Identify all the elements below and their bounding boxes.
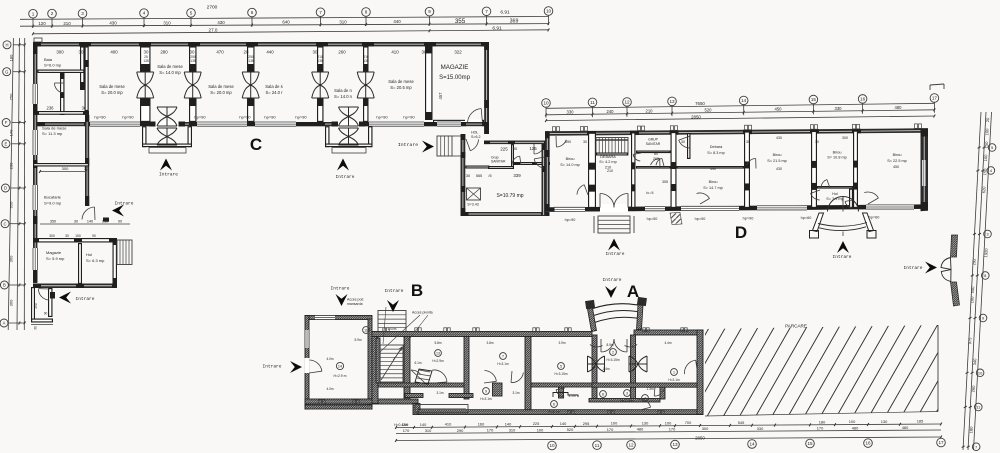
svg-text:Birou: Birou [566, 157, 575, 161]
connector door arc [470, 139, 478, 150]
svg-text:120: 120 [38, 21, 46, 26]
A interior wall 7 [631, 335, 636, 400]
A interior wall 6 [592, 335, 597, 400]
svg-text:15: 15 [811, 97, 817, 102]
connector south wall [461, 212, 550, 216]
left wing west wall [33, 46, 37, 283]
A door vestibule right [625, 344, 638, 347]
svg-text:140: 140 [560, 421, 567, 426]
svg-text:H=3.1m: H=3.1m [497, 362, 509, 366]
svg-text:27.0: 27.0 [209, 28, 218, 33]
svg-text:160: 160 [478, 421, 485, 426]
svg-text:10: 10 [546, 9, 552, 14]
svg-text:100: 100 [611, 421, 618, 426]
hp labels building D [565, 215, 880, 221]
svg-text:620: 620 [981, 186, 987, 194]
connector east wall [542, 144, 546, 216]
svg-text:S= 20.5 mp: S= 20.5 mp [390, 85, 412, 90]
svg-text:hp=90: hp=90 [695, 217, 706, 221]
D door small arcs [633, 154, 640, 161]
D dimension chain [545, 101, 935, 116]
building C top wall junction blocks [33, 42, 489, 46]
svg-text:S=9.0 mp: S=9.0 mp [44, 201, 62, 206]
connector door east [534, 159, 544, 168]
svg-text:30: 30 [746, 140, 750, 144]
svg-text:Birou: Birou [893, 153, 902, 157]
A room13 door arc [432, 370, 447, 382]
D door arc 5 [747, 159, 756, 166]
svg-text:5.9m: 5.9m [354, 338, 361, 342]
svg-text:H=3.1m: H=3.1m [548, 410, 560, 414]
entrance arrow D2 [837, 241, 849, 253]
svg-text:30: 30 [34, 326, 38, 330]
window left wing west 2 [33, 130, 37, 155]
svg-text:Acces pod: Acces pod [347, 298, 363, 302]
window room14 west [305, 330, 309, 348]
svg-text:4: 4 [644, 397, 646, 401]
svg-text:5: 5 [190, 10, 193, 15]
entrance arrow B1 [336, 294, 348, 306]
svg-text:100: 100 [537, 427, 544, 432]
svg-text:S= 14.0 mp: S= 14.0 mp [159, 70, 181, 75]
A inner stairs [380, 345, 403, 382]
building D west wall [545, 131, 550, 211]
top dimension chain [20, 5, 549, 28]
svg-text:170: 170 [607, 427, 614, 432]
svg-text:430: 430 [776, 167, 782, 171]
svg-text:140: 140 [505, 421, 512, 426]
svg-text:4.0m: 4.0m [326, 357, 333, 361]
svg-text:2: 2 [51, 11, 54, 16]
A toilet door arcs [484, 371, 496, 382]
svg-text:290: 290 [457, 428, 464, 433]
A stair hatch wall [376, 338, 380, 383]
svg-text:250: 250 [248, 55, 254, 59]
A door room1 [629, 356, 647, 372]
window left wing west 4 [33, 248, 37, 270]
svg-text:8.5m: 8.5m [606, 343, 613, 347]
svg-text:Intrare: Intrare [76, 296, 95, 302]
svg-text:30: 30 [422, 50, 427, 55]
svg-text:130: 130 [881, 419, 888, 424]
svg-text:440: 440 [266, 50, 274, 55]
svg-text:3.9m: 3.9m [558, 341, 565, 345]
room 2 label [610, 349, 617, 356]
building D interior walls [588, 131, 858, 207]
svg-text:5.8m: 5.8m [434, 341, 441, 345]
svg-text:hp=90: hp=90 [264, 115, 276, 120]
svg-text:80: 80 [654, 152, 658, 156]
svg-text:185: 185 [917, 419, 924, 424]
svg-text:310: 310 [425, 428, 432, 433]
svg-text:975: 975 [967, 337, 973, 345]
A door vestibule left [590, 344, 603, 347]
entrance arrow B2 [387, 300, 399, 312]
building C top dim labels [56, 50, 462, 55]
D hol partition [818, 187, 853, 188]
svg-text:Sala de mese: Sala de mese [388, 79, 414, 84]
svg-text:236: 236 [47, 106, 55, 111]
svg-text:S= 6.3 mp: S= 6.3 mp [86, 258, 105, 263]
svg-text:Debara: Debara [710, 145, 723, 149]
svg-text:170: 170 [487, 428, 494, 433]
A cellar ramp [415, 369, 432, 384]
svg-text:hp=90: hp=90 [94, 115, 106, 120]
svg-text:250: 250 [34, 303, 38, 309]
svg-text:360: 360 [9, 255, 14, 262]
svg-text:180: 180 [9, 54, 14, 61]
svg-text:Intrare: Intrare [398, 142, 418, 148]
svg-text:225: 225 [533, 421, 540, 426]
svg-text:135: 135 [190, 59, 196, 63]
svg-text:545: 545 [738, 420, 745, 425]
svg-text:H=0.42m: H=0.42m [394, 423, 408, 427]
right gate doors [941, 258, 951, 282]
svg-text:330: 330 [567, 109, 575, 114]
svg-text:430: 430 [109, 21, 117, 26]
svg-text:240: 240 [607, 109, 615, 114]
building D east wall [921, 128, 929, 211]
svg-text:30: 30 [190, 50, 195, 55]
svg-text:470: 470 [216, 50, 224, 55]
svg-text:S= 14.7 mp: S= 14.7 mp [703, 186, 723, 190]
svg-text:Intrare: Intrare [833, 254, 852, 260]
svg-text:tc /4: tc /4 [646, 191, 653, 195]
svg-text:30: 30 [313, 50, 318, 55]
D entrance opening doors [600, 194, 628, 208]
svg-text:Hol: Hol [832, 192, 838, 196]
svg-text:S=6.2: S=6.2 [471, 135, 481, 139]
svg-text:369: 369 [510, 19, 519, 25]
A toilet partition north [405, 394, 423, 398]
svg-text:135: 135 [363, 59, 369, 63]
svg-text:Birou: Birou [709, 180, 718, 184]
svg-text:11: 11 [590, 100, 595, 105]
svg-text:6: 6 [553, 403, 555, 407]
A doorstep slab [415, 405, 468, 413]
svg-text:4.4m: 4.4m [664, 341, 671, 345]
svg-text:355: 355 [455, 18, 466, 25]
svg-text:hp=90: hp=90 [565, 218, 576, 222]
svg-text:540: 540 [970, 286, 976, 294]
svg-text:450: 450 [775, 107, 783, 112]
svg-text:hp=90: hp=90 [239, 115, 251, 120]
top total dimension line [32, 25, 549, 35]
svg-text:250: 250 [9, 93, 14, 100]
svg-text:13: 13 [669, 99, 675, 104]
svg-text:10: 10 [978, 370, 983, 375]
svg-text:4: 4 [143, 11, 146, 16]
svg-text:135: 135 [317, 59, 323, 63]
room 1 label [671, 369, 678, 376]
svg-text:HOL: HOL [471, 131, 478, 135]
svg-text:7650: 7650 [695, 101, 705, 106]
room 4 label [642, 395, 649, 402]
svg-text:17: 17 [932, 96, 938, 101]
svg-text:Intrare: Intrare [159, 172, 178, 178]
svg-text:D: D [735, 223, 747, 242]
right boundary wall lower [951, 282, 960, 306]
connector west wall [461, 134, 466, 216]
svg-text:30: 30 [84, 166, 89, 171]
svg-text:PARCARE: PARCARE [785, 324, 807, 329]
svg-text:210: 210 [607, 169, 613, 173]
svg-text:hp=90: hp=90 [122, 115, 134, 120]
building C right wall [484, 42, 489, 134]
left wing wall 236 [34, 112, 89, 115]
svg-text:Sala de mese: Sala de mese [157, 64, 183, 69]
building A east wall [697, 330, 703, 414]
left axis line [8, 38, 25, 330]
room 8 label [600, 391, 607, 398]
D stairwell stairs [596, 138, 628, 156]
building D top wall [545, 128, 928, 135]
door width labels building C [143, 55, 369, 63]
D debara partition [597, 153, 628, 155]
building A top wall west [372, 332, 592, 337]
svg-text:20: 20 [244, 50, 249, 55]
svg-text:170: 170 [9, 129, 14, 136]
D axis line [546, 102, 934, 118]
D door arc 2 [651, 159, 660, 166]
svg-text:330: 330 [835, 106, 843, 111]
svg-text:11: 11 [364, 329, 368, 333]
svg-text:280: 280 [160, 50, 168, 55]
building C entrance porch 1 [143, 107, 192, 153]
room 9 label [483, 388, 490, 395]
D axis bubbles 10-17 [542, 94, 939, 108]
svg-text:hp=90: hp=90 [194, 115, 206, 120]
porch1 opening [149, 121, 185, 127]
entrance arrow D1 [608, 239, 620, 251]
svg-text:90: 90 [118, 220, 122, 224]
svg-text:480: 480 [895, 105, 903, 110]
svg-text:125: 125 [529, 146, 537, 151]
D inner dim labels [565, 136, 899, 184]
double door room2-3 [184, 72, 201, 98]
svg-text:7: 7 [319, 10, 322, 15]
D grup sanitar partition [637, 151, 670, 152]
svg-text:100: 100 [984, 128, 990, 136]
vestibule door arcs [512, 156, 520, 165]
svg-text:30: 30 [466, 174, 470, 178]
svg-text:S= 14.0 mp: S= 14.0 mp [560, 163, 580, 167]
svg-text:330: 330 [757, 426, 764, 431]
svg-text:3.1m: 3.1m [568, 394, 575, 398]
svg-text:mansarda: mansarda [347, 302, 363, 306]
svg-text:hp=90: hp=90 [295, 115, 307, 120]
svg-text:480: 480 [637, 427, 644, 432]
svg-text:300: 300 [49, 234, 55, 238]
svg-text:S=6.0 mp: S=6.0 mp [44, 63, 62, 68]
svg-text:S= 22.5 mp: S= 22.5 mp [887, 159, 907, 163]
svg-text:12: 12 [628, 442, 634, 447]
svg-text:15: 15 [807, 441, 813, 446]
A vestibule doors [601, 339, 627, 352]
svg-text:Acces pivnita: Acces pivnita [412, 311, 433, 315]
building C MAGAZIE bottom wall [434, 120, 484, 122]
A corridor door arc [639, 399, 651, 407]
svg-text:322: 322 [454, 50, 462, 55]
svg-text:30: 30 [144, 50, 149, 55]
svg-text:C: C [4, 221, 7, 226]
building A bottom wall [305, 399, 418, 404]
svg-text:hp=90: hp=90 [376, 115, 388, 120]
svg-text:180: 180 [819, 419, 826, 424]
room 6 label [551, 401, 558, 408]
svg-text:210: 210 [63, 21, 71, 26]
svg-text:230: 230 [9, 162, 14, 169]
svg-text:SANITAR: SANITAR [646, 142, 661, 146]
svg-text:2850: 2850 [691, 115, 701, 120]
svg-text:/5: /5 [488, 174, 491, 178]
room 14 label [336, 362, 343, 369]
building D bottom wall with windows [545, 202, 928, 212]
svg-text:90: 90 [92, 234, 96, 238]
svg-text:457: 457 [438, 92, 443, 100]
svg-text:Magazie: Magazie [46, 250, 62, 255]
svg-text:Baia: Baia [44, 57, 53, 62]
entrance arrow west A [290, 361, 302, 373]
double door room3-4 [242, 72, 259, 98]
svg-text:Sala de mese: Sala de mese [42, 126, 67, 131]
svg-text:210: 210 [317, 55, 323, 59]
svg-text:S= 8.3 mp: S= 8.3 mp [707, 151, 724, 155]
svg-text:6: 6 [251, 10, 254, 15]
svg-text:SANITAR: SANITAR [491, 160, 506, 164]
svg-text:S= 11.3 mp: S= 11.3 mp [42, 131, 63, 136]
D door arc 3 [679, 140, 690, 148]
svg-text:210: 210 [646, 108, 654, 113]
svg-text:520: 520 [567, 427, 574, 432]
svg-text:hp=60: hp=60 [869, 215, 880, 219]
entrance arrow connector [422, 141, 434, 153]
D debara8 partition [677, 167, 743, 168]
left wing porch [32, 288, 35, 321]
D door arc 7 [864, 192, 878, 198]
dim 300 left wing [40, 171, 86, 173]
svg-text:300: 300 [62, 166, 69, 171]
svg-text:355: 355 [662, 180, 668, 184]
double door room5-6 [357, 72, 374, 98]
D door arc 1 [556, 140, 566, 147]
A door room13 [411, 370, 425, 383]
A interior wall 4 [525, 337, 531, 410]
svg-text:H=2.9m: H=2.9m [432, 359, 444, 363]
svg-text:S= 5.9 mp: S= 5.9 mp [46, 256, 65, 261]
bottom axis bubbles [548, 438, 946, 450]
svg-text:25: 25 [144, 55, 148, 59]
entrance arrow right [925, 262, 937, 274]
svg-text:6.1m: 6.1m [414, 361, 421, 365]
A toilet stub wall [493, 383, 503, 396]
bottom chain line 3 [395, 435, 942, 442]
svg-text:3.8m: 3.8m [486, 341, 493, 345]
svg-text:300: 300 [56, 50, 64, 55]
baia door arc [54, 83, 63, 93]
svg-text:S=15.00mp: S=15.00mp [439, 75, 471, 81]
svg-text:Sala de s: Sala de s [265, 84, 282, 89]
A partition h1 [378, 383, 464, 387]
svg-text:170: 170 [817, 425, 824, 430]
svg-text:410: 410 [445, 422, 452, 427]
A canopy [585, 297, 647, 332]
room 7 label [500, 353, 507, 360]
svg-text:Birou: Birou [833, 151, 842, 155]
svg-text:DEBARA: DEBARA [600, 155, 616, 159]
B outside stairs [378, 311, 406, 333]
A interior wall 5 [559, 387, 564, 398]
svg-text:7: 7 [485, 9, 488, 14]
double door room4-5 [312, 72, 329, 98]
right boundary wall upper [951, 235, 958, 257]
svg-text:150: 150 [75, 234, 81, 238]
left wing east wall mid [85, 115, 89, 206]
svg-text:Hol: Hol [86, 252, 92, 257]
building C MAGAZIE interior wall [426, 47, 432, 119]
svg-text:3: 3 [81, 11, 84, 16]
svg-text:B: B [3, 283, 6, 288]
hol block walls [34, 239, 117, 242]
svg-text:H=2.9 m: H=2.9 m [334, 374, 347, 378]
svg-text:S= 20.0 mp: S= 20.0 mp [101, 90, 123, 95]
hatched shaft [467, 188, 481, 200]
building C entrance porch 2 [326, 107, 372, 153]
svg-text:140: 140 [420, 422, 427, 427]
chimney marks building D [553, 124, 922, 131]
A interior wall stair west [372, 337, 378, 404]
svg-text:90: 90 [44, 312, 48, 316]
top axis line [20, 15, 549, 28]
svg-text:410: 410 [391, 50, 399, 55]
svg-text:6.91: 6.91 [492, 25, 502, 31]
A door room5 [588, 356, 605, 372]
svg-text:Intrare: Intrare [115, 201, 134, 207]
svg-text:5: 5 [560, 365, 562, 369]
svg-text:430: 430 [217, 20, 225, 25]
svg-text:H: H [5, 42, 8, 47]
svg-text:3: 3 [626, 392, 628, 396]
svg-text:S= 21.5 mp: S= 21.5 mp [767, 159, 787, 163]
svg-text:H=3.15m: H=3.15m [606, 358, 619, 362]
A inner dim labels [326, 338, 671, 398]
svg-text:Sala de mese: Sala de mese [99, 84, 125, 89]
svg-text:650: 650 [9, 201, 14, 208]
right chain bubbles [962, 144, 996, 451]
svg-text:4.0m: 4.0m [326, 387, 333, 391]
A partition rooms83 south [589, 399, 660, 403]
svg-text:11: 11 [595, 443, 600, 448]
building C chimney mark left [34, 38, 42, 42]
left dimension chain [9, 38, 26, 330]
svg-text:360: 360 [9, 299, 14, 306]
svg-text:135: 135 [143, 59, 149, 63]
svg-text:8: 8 [365, 10, 368, 15]
bottom chain line 1 [395, 419, 942, 429]
svg-text:H=3.1m: H=3.1m [480, 397, 492, 401]
svg-text:G: G [5, 69, 8, 74]
svg-text:640: 640 [282, 20, 290, 25]
D door arc west room [577, 185, 584, 195]
building C bottom wall with windows [33, 122, 489, 126]
D door arc 6 [811, 193, 820, 200]
svg-text:1: 1 [673, 371, 675, 375]
svg-text:13: 13 [672, 442, 678, 447]
svg-text:17: 17 [938, 440, 944, 445]
svg-text:180: 180 [968, 426, 974, 434]
svg-text:8: 8 [602, 393, 604, 397]
svg-text:B: B [411, 281, 423, 300]
